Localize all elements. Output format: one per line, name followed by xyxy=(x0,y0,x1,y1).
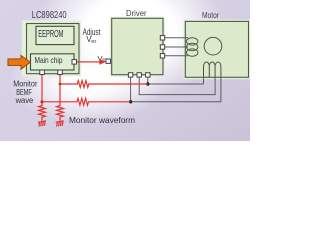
wire OUT3 xyxy=(165,55,189,57)
wire driver pin B3 down xyxy=(148,77,204,84)
red monitor wires xyxy=(38,74,148,126)
pin Driver OUT1 xyxy=(160,36,164,40)
motor rotor xyxy=(204,37,222,55)
junction red node D xyxy=(40,100,43,103)
wire BEMF2 vertical xyxy=(59,74,61,106)
wire motor leg2 stub xyxy=(208,76,210,77)
EEPROM box U2 xyxy=(36,26,74,44)
wire Vref (red arrow from Main chip to Driver) xyxy=(77,61,101,63)
block LC898240 halo xyxy=(22,20,81,76)
input arrow (orange) xyxy=(8,55,30,69)
wire motor leg3 xyxy=(139,77,215,95)
pin Main chip P2 xyxy=(58,70,63,75)
block LC898240 xyxy=(27,24,80,74)
wire motor leg1 xyxy=(203,77,205,85)
junction node B xyxy=(129,100,132,103)
svg-text:EEPROM: EEPROM xyxy=(38,29,63,40)
block Motor xyxy=(185,21,248,77)
pin Driver B2 xyxy=(137,73,141,77)
resistor R2 xyxy=(57,106,64,121)
wire OUT1 xyxy=(165,37,189,39)
svg-text:Driver: Driver xyxy=(126,9,147,18)
wire driver pin B1 down xyxy=(130,77,132,102)
junction red node C xyxy=(59,83,62,86)
pin Driver B3 xyxy=(146,73,150,77)
pin Driver OUT3 xyxy=(160,54,164,58)
block Motor halo xyxy=(184,20,251,80)
svg-text:Monitor waveform: Monitor waveform xyxy=(69,115,135,125)
wire BEMF1 vertical xyxy=(41,74,43,106)
svg-text:REF: REF xyxy=(91,39,96,44)
pin Driver B1 xyxy=(128,73,132,77)
pin Main chip Vref out xyxy=(72,60,77,65)
ground GND2 xyxy=(56,121,64,127)
pin Driver Vref in xyxy=(106,59,110,63)
motor winding L1 (left coil) xyxy=(187,38,198,57)
svg-text:wave: wave xyxy=(15,95,34,105)
junction node A xyxy=(146,82,149,85)
block Driver halo xyxy=(110,17,165,77)
pin Main chip P1 xyxy=(40,70,45,75)
svg-text:Adjust: Adjust xyxy=(83,27,101,37)
pin Driver OUT2 xyxy=(160,45,164,49)
wire monitor line1 xyxy=(60,81,148,88)
Main chip box U1 xyxy=(31,54,75,70)
motor winding L2 (bottom coil) xyxy=(204,62,221,77)
wire OUT2 xyxy=(165,46,189,48)
gray wires driver->motor coil xyxy=(165,38,189,56)
svg-text:Motor: Motor xyxy=(202,10,219,20)
resistor R1 xyxy=(39,106,46,121)
svg-text:LC898240: LC898240 xyxy=(32,10,67,21)
wire motor leg4 xyxy=(131,77,221,102)
svg-text:Main chip: Main chip xyxy=(35,56,64,65)
block Driver xyxy=(112,18,163,74)
wire monitor line2 xyxy=(42,98,131,105)
ground GND1 xyxy=(38,121,46,127)
